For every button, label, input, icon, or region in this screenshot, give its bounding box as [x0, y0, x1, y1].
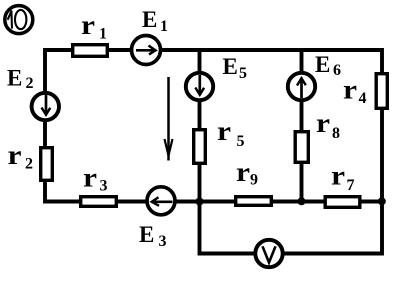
svg-text:E: E	[223, 54, 238, 79]
wire E1 to top-right corner	[159, 50, 382, 73]
label r1	[81, 10, 107, 43]
label r4	[343, 75, 367, 107]
label E5	[223, 54, 248, 82]
wire r9 to node B	[272, 200, 302, 204]
wire E3 to node A	[175, 200, 200, 204]
svg-text:E: E	[142, 7, 157, 32]
wire node B to r7	[302, 200, 327, 204]
wire r5 to node A	[198, 164, 202, 202]
node C junction dot	[378, 197, 386, 205]
resistor R3	[81, 197, 117, 207]
svg-text:r: r	[343, 75, 357, 105]
wire r1 to E1	[108, 48, 133, 52]
resistor R2	[41, 148, 53, 181]
node A junction dot	[196, 198, 204, 206]
svg-text:8: 8	[332, 125, 340, 142]
resistor R8	[295, 132, 308, 163]
svg-text:2: 2	[26, 75, 34, 92]
svg-text:3: 3	[159, 233, 167, 250]
svg-text:9: 9	[250, 172, 258, 189]
wire r3 to E3	[117, 200, 148, 204]
svg-text:2: 2	[25, 156, 33, 173]
resistor R5	[194, 130, 206, 164]
wire r2 to r3 corner	[45, 181, 81, 202]
svg-text:6: 6	[333, 62, 341, 79]
svg-text:4: 4	[359, 90, 367, 107]
resistor R7	[325, 197, 360, 208]
svg-text:5: 5	[237, 133, 245, 150]
svg-text:r: r	[217, 116, 231, 146]
resistor R4	[376, 74, 387, 109]
resistor R9	[236, 197, 272, 206]
current arrow	[165, 77, 173, 161]
wire r8 to node B	[300, 163, 304, 202]
label E3	[139, 222, 167, 250]
wire E5 to r5	[198, 100, 202, 129]
svg-text:E: E	[7, 65, 22, 90]
resistor R1	[73, 45, 108, 57]
label r9	[236, 157, 258, 189]
svg-text:5: 5	[239, 65, 247, 82]
svg-text:7: 7	[347, 177, 355, 194]
svg-text:1: 1	[160, 18, 168, 35]
node B junction dot	[298, 197, 306, 205]
label r5	[217, 116, 245, 150]
wire top-left corner	[45, 50, 73, 92]
source E1	[132, 36, 161, 65]
label r2	[8, 140, 34, 173]
svg-text:r: r	[236, 157, 250, 187]
source E2	[32, 93, 59, 120]
wire r4 down right side to V loop	[284, 109, 382, 254]
label r3	[83, 162, 108, 194]
wire E6 to r8	[300, 100, 304, 132]
label E2	[7, 65, 34, 92]
badge circle "10"	[5, 6, 33, 34]
svg-text:r: r	[316, 108, 330, 138]
svg-text:r: r	[83, 162, 97, 192]
source E6	[288, 73, 315, 100]
wire top to E5	[198, 49, 202, 74]
label r7	[331, 160, 355, 194]
svg-text:r: r	[81, 10, 95, 40]
source E5	[186, 73, 213, 100]
svg-text:E: E	[315, 52, 330, 77]
label E6	[315, 52, 341, 79]
wire E2 to r2	[43, 120, 47, 147]
wire node A to r9	[200, 200, 237, 204]
svg-text:r: r	[331, 160, 345, 190]
svg-text:1: 1	[99, 26, 107, 43]
svg-text:E: E	[139, 222, 154, 247]
label r8	[316, 108, 340, 142]
svg-text:3: 3	[100, 178, 108, 195]
label E1	[142, 7, 168, 35]
svg-text:r: r	[8, 140, 22, 170]
source E3	[147, 187, 175, 215]
wire top to E6	[300, 49, 304, 74]
voltmeter V	[255, 240, 282, 267]
wire r7 to node C	[360, 200, 382, 204]
wire V to node A loop	[200, 202, 255, 254]
